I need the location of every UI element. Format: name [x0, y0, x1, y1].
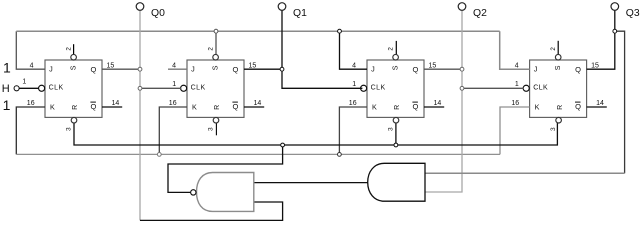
svg-text:J: J — [49, 64, 53, 73]
svg-text:Q: Q — [413, 65, 419, 74]
svg-text:Q: Q — [413, 102, 419, 111]
svg-text:J: J — [371, 64, 375, 73]
svg-text:K: K — [372, 103, 377, 112]
svg-text:R: R — [214, 105, 221, 110]
svg-text:Q: Q — [233, 102, 239, 111]
svg-text:CLK: CLK — [191, 84, 206, 91]
svg-text:CLK: CLK — [533, 84, 548, 91]
svg-text:Q: Q — [575, 102, 581, 111]
svg-text:1: 1 — [3, 59, 11, 75]
svg-text:1: 1 — [22, 79, 26, 86]
svg-text:14: 14 — [434, 100, 442, 107]
svg-text:H: H — [2, 83, 10, 95]
svg-text:R: R — [72, 105, 79, 110]
svg-text:S: S — [393, 65, 400, 70]
svg-text:2: 2 — [388, 47, 395, 51]
svg-text:16: 16 — [349, 100, 357, 107]
svg-text:CLK: CLK — [49, 84, 64, 91]
svg-text:1: 1 — [515, 81, 519, 88]
svg-text:K: K — [50, 103, 55, 112]
svg-text:4: 4 — [172, 62, 176, 69]
svg-text:4: 4 — [515, 62, 519, 69]
svg-text:Q: Q — [91, 65, 97, 74]
svg-text:S: S — [213, 65, 220, 70]
svg-text:S: S — [555, 65, 562, 70]
svg-text:16: 16 — [27, 100, 35, 107]
svg-text:R: R — [557, 105, 564, 110]
svg-text:15: 15 — [107, 62, 115, 69]
svg-text:4: 4 — [352, 62, 356, 69]
svg-text:16: 16 — [511, 100, 519, 107]
svg-text:14: 14 — [596, 100, 604, 107]
svg-text:2: 2 — [550, 47, 557, 51]
svg-text:Q3: Q3 — [626, 8, 640, 19]
svg-text:3: 3 — [387, 127, 394, 131]
svg-text:Q1: Q1 — [293, 8, 307, 19]
svg-text:S: S — [71, 65, 78, 70]
svg-text:Q: Q — [575, 65, 581, 74]
svg-text:15: 15 — [591, 62, 599, 69]
svg-text:3: 3 — [65, 127, 72, 131]
svg-text:J: J — [534, 64, 538, 73]
svg-text:16: 16 — [169, 100, 177, 107]
svg-text:Q: Q — [91, 102, 97, 111]
svg-text:Q: Q — [233, 65, 239, 74]
svg-text:CLK: CLK — [371, 84, 386, 91]
svg-text:1: 1 — [3, 97, 11, 113]
svg-text:2: 2 — [66, 47, 73, 51]
svg-text:Q2: Q2 — [473, 8, 487, 19]
svg-text:J: J — [191, 64, 195, 73]
svg-text:14: 14 — [112, 100, 120, 107]
svg-text:14: 14 — [254, 100, 262, 107]
svg-text:K: K — [535, 103, 540, 112]
svg-text:Q0: Q0 — [151, 8, 165, 19]
svg-text:R: R — [394, 105, 401, 110]
svg-text:K: K — [192, 103, 197, 112]
svg-text:1: 1 — [352, 81, 356, 88]
svg-text:15: 15 — [249, 62, 257, 69]
svg-text:2: 2 — [208, 47, 215, 51]
svg-text:3: 3 — [550, 127, 557, 131]
svg-text:1: 1 — [172, 81, 176, 88]
svg-text:15: 15 — [429, 62, 437, 69]
svg-text:3: 3 — [207, 127, 214, 131]
svg-text:4: 4 — [30, 62, 34, 69]
